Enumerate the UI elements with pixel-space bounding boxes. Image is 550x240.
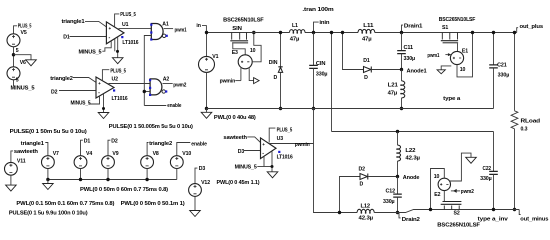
inductor L22 42.3u xyxy=(396,130,399,133)
node Anode1 xyxy=(400,68,403,71)
svg-text:5: 5 xyxy=(16,77,19,83)
svg-text:330µ: 330µ xyxy=(404,56,416,62)
ground at V12 xyxy=(194,196,196,210)
svg-text:42.3µ: 42.3µ xyxy=(405,155,420,161)
E3 output box wire to rail xyxy=(252,33,261,62)
svg-text:RLoad: RLoad xyxy=(521,118,541,124)
source row bus wire xyxy=(48,179,177,181)
U3 Qbar pin marker xyxy=(278,151,280,153)
svg-text:U2: U2 xyxy=(112,77,119,83)
svg-text:C12: C12 xyxy=(386,188,396,194)
voltage source V10 enable xyxy=(177,143,191,156)
voltage source V4 D1 xyxy=(81,140,83,156)
svg-text:V12: V12 xyxy=(201,180,210,186)
svg-text:triangle2: triangle2 xyxy=(50,76,73,82)
wire inin down to D1 branch xyxy=(343,33,364,70)
svg-text:CIN: CIN xyxy=(316,61,326,67)
svg-text:pwmin: pwmin xyxy=(295,142,310,148)
svg-text:5: 5 xyxy=(16,48,19,54)
ground at source bus xyxy=(47,180,49,184)
svg-text:Drain2: Drain2 xyxy=(402,217,420,223)
svg-text:E1: E1 xyxy=(462,48,468,54)
svg-text:PULSE(0 1 5u 9.9u 100n 0 10u): PULSE(0 1 5u 9.9u 100n 0 10u) xyxy=(9,211,88,217)
U2 output wire to A2 xyxy=(109,83,151,85)
svg-text:PWL(0 0 50m 0 60m 0.7 75ms 0.8: PWL(0 0 50m 0 60m 0.7 75ms 0.8) xyxy=(80,187,168,193)
wire SIN gate to E3 xyxy=(233,43,245,54)
svg-text:E2: E2 xyxy=(434,192,440,198)
svg-text:inin: inin xyxy=(319,20,329,26)
svg-text:PWL(0 0.1 50m 0.1 60m 0.7 75ms: PWL(0 0.1 50m 0.1 60m 0.7 75ms 0.8) xyxy=(16,201,114,207)
svg-text:pwm2: pwm2 xyxy=(173,83,186,89)
net label MINUS_5 at U3 xyxy=(257,166,272,168)
voltage source V6 xyxy=(7,67,20,80)
svg-text:Anode1: Anode1 xyxy=(407,68,427,74)
behavioral source E3 gain 10 xyxy=(238,55,252,69)
diode D2 xyxy=(360,174,368,180)
rail wire SIN to L1 xyxy=(248,32,289,34)
svg-text:+: + xyxy=(98,81,101,86)
svg-text:PLUS_5: PLUS_5 xyxy=(18,23,32,29)
wire pwmin to E3 xyxy=(240,68,242,81)
svg-text:PULSE(0 1 50.005m 5u 5u 0 10u): PULSE(0 1 50.005m 5u 5u 0 10u) xyxy=(109,124,193,130)
svg-text:BSC265N10LSF: BSC265N10LSF xyxy=(439,17,476,23)
behavioral source E1 gain 10 xyxy=(450,51,463,64)
U3 output wire pwmin xyxy=(269,143,314,145)
svg-text:type a: type a xyxy=(443,96,460,102)
net label PLUS_5 at U3 xyxy=(269,128,275,142)
U2 ground pin xyxy=(103,94,105,113)
E3 port arrow xyxy=(249,68,253,80)
capacitor C21 330u xyxy=(493,33,495,65)
svg-text:+: + xyxy=(262,142,265,147)
svg-text:out_plus: out_plus xyxy=(520,24,544,30)
net label PLUS_5 at V5 xyxy=(14,26,18,34)
net label MINUS_5 at U2 xyxy=(89,96,100,104)
net label MINUS_5 at V6 xyxy=(13,80,15,86)
inductor L12 42.3u xyxy=(357,209,374,212)
svg-text:pwm1: pwm1 xyxy=(175,27,187,33)
svg-text:V5: V5 xyxy=(21,30,27,36)
capacitor CIN 330u xyxy=(313,33,315,66)
ground at V11 xyxy=(10,175,12,185)
E1 port arrow xyxy=(441,66,451,70)
svg-text:47µ: 47µ xyxy=(388,91,398,97)
svg-text:PWL(0 0 40u 48): PWL(0 0 40u 48) xyxy=(214,115,256,121)
svg-text:10: 10 xyxy=(434,174,440,180)
U1 Qbar pin marker xyxy=(121,36,123,38)
behavioral source E2 gain 10 xyxy=(438,178,450,190)
wire E2 to S2 gate xyxy=(443,191,445,202)
svg-text:MINUS_5: MINUS_5 xyxy=(79,49,102,55)
bottom return rail wire xyxy=(207,108,494,110)
svg-text:10: 10 xyxy=(460,67,466,73)
svg-text:V10: V10 xyxy=(182,151,191,157)
capacitor C22 330u xyxy=(493,132,495,172)
svg-text:type a_inv: type a_inv xyxy=(478,216,508,222)
wire D1 cathode to Anode1 xyxy=(372,69,402,71)
wire D2 cathode to Anode xyxy=(368,176,397,178)
svg-text:330µ: 330µ xyxy=(480,176,492,182)
svg-text:BSC265N10LSF: BSC265N10LSF xyxy=(223,17,263,23)
svg-text:Drain1: Drain1 xyxy=(404,23,423,29)
svg-text:10: 10 xyxy=(250,48,256,54)
svg-text:enable: enable xyxy=(167,103,181,109)
net label pwm2 xyxy=(163,83,173,85)
ground at V1 xyxy=(206,109,208,113)
svg-text:out_minus: out_minus xyxy=(520,216,548,222)
svg-text:MINUS_5: MINUS_5 xyxy=(235,165,257,171)
svg-text:D1: D1 xyxy=(363,58,370,64)
svg-text:S2: S2 xyxy=(454,210,460,216)
svg-text:in: in xyxy=(196,23,200,29)
svg-text:V6: V6 xyxy=(20,60,26,66)
svg-text:C21: C21 xyxy=(497,63,507,69)
svg-text:D: D xyxy=(364,75,368,81)
svg-text:Anode: Anode xyxy=(403,175,420,181)
svg-text:D1: D1 xyxy=(63,34,70,40)
mosfet S2 BSC265N10LSF xyxy=(444,206,459,210)
svg-text:C22: C22 xyxy=(483,166,492,172)
wire pwm1 to E1 xyxy=(445,54,448,56)
svg-text:D1: D1 xyxy=(84,138,91,144)
svg-text:sawteeth: sawteeth xyxy=(223,135,247,141)
comparator U2 LT1016 xyxy=(96,77,114,98)
node V5/V6 junction xyxy=(12,53,15,56)
svg-text:D: D xyxy=(274,75,278,81)
svg-text:sawteeth: sawteeth xyxy=(14,149,38,155)
U1 ground pin xyxy=(114,39,116,51)
svg-text:S1: S1 xyxy=(442,25,448,31)
svg-text:D: D xyxy=(360,182,364,188)
svg-text:LT1016: LT1016 xyxy=(122,40,138,46)
svg-text:L21: L21 xyxy=(388,82,398,88)
diode DIN xyxy=(280,33,282,67)
net label out_minus xyxy=(519,210,520,215)
net label out_plus xyxy=(517,28,518,33)
svg-text:V1: V1 xyxy=(212,54,218,60)
wire S1 gate to E1 xyxy=(457,43,459,51)
svg-text:D2: D2 xyxy=(359,167,366,173)
U2 Qbar pin marker xyxy=(113,89,115,91)
svg-text:pwm2: pwm2 xyxy=(461,189,474,195)
inductor L1 47u xyxy=(290,30,306,33)
net label MINUS_5 at U1 xyxy=(102,41,111,52)
wire inin down to lower cell xyxy=(331,33,333,132)
svg-text:D2: D2 xyxy=(51,90,58,96)
svg-text:PULSE(0 1 50m 5u 5u 0 10u): PULSE(0 1 50m 5u 5u 0 10u) xyxy=(10,129,87,135)
svg-text:D3: D3 xyxy=(238,149,245,155)
net label Drain1 xyxy=(402,25,404,32)
net label PLUS_5 at U1 xyxy=(115,14,120,27)
wire pwm2 to E2 xyxy=(451,190,460,192)
svg-text:330µ: 330µ xyxy=(383,199,395,205)
E2 box wire to rail xyxy=(431,169,445,210)
svg-text:MINUS_5: MINUS_5 xyxy=(11,86,35,92)
voltage source V12 D3 xyxy=(195,168,197,184)
svg-text:pwmin: pwmin xyxy=(220,78,236,84)
svg-text:V11: V11 xyxy=(17,159,26,165)
svg-text:pwm1: pwm1 xyxy=(427,53,439,59)
wire V5 to V6 xyxy=(13,47,15,67)
svg-text:triangle1: triangle1 xyxy=(62,19,85,25)
svg-text:A1: A1 xyxy=(162,21,169,27)
lower rail wire drain2 xyxy=(314,109,358,213)
voltage source V1 xyxy=(206,33,208,57)
svg-text:V7: V7 xyxy=(53,151,59,157)
svg-text:PLUS_5: PLUS_5 xyxy=(110,68,126,74)
svg-text:PWL(0 0 45m 1.1): PWL(0 0 45m 1.1) xyxy=(217,180,260,186)
A2 enable input wire xyxy=(144,91,150,93)
svg-text:triangle1: triangle1 xyxy=(21,141,44,147)
svg-text:enable: enable xyxy=(191,141,207,147)
svg-text:E3: E3 xyxy=(232,50,238,56)
net label PLUS_5 at U2 xyxy=(102,70,109,81)
svg-text:PWL(0 0 50m 0 50.1m 1): PWL(0 0 50m 0 50.1m 1) xyxy=(121,201,185,207)
svg-text:PLUS_5: PLUS_5 xyxy=(277,127,293,133)
svg-text:L1: L1 xyxy=(292,23,298,29)
voltage source V11 sawteeth xyxy=(11,151,13,163)
net label Drain2 xyxy=(399,213,401,218)
svg-text:.tran 100m: .tran 100m xyxy=(302,7,334,13)
voltage source V8 triangle2 xyxy=(147,143,148,156)
inductor L21 47u xyxy=(401,70,403,81)
svg-text:SIN: SIN xyxy=(232,26,242,32)
svg-text:D2: D2 xyxy=(111,138,118,144)
diode D1 xyxy=(364,67,372,73)
svg-text:+: + xyxy=(109,26,112,31)
top input rail wire xyxy=(206,32,289,34)
net label pwm1 xyxy=(164,28,173,30)
svg-text:U1: U1 xyxy=(122,22,129,28)
svg-text:330µ: 330µ xyxy=(498,73,510,79)
AND gate A2 xyxy=(150,79,162,95)
svg-text:A2: A2 xyxy=(163,76,170,82)
svg-text:0.3: 0.3 xyxy=(521,127,528,133)
svg-text:DIN: DIN xyxy=(269,60,278,66)
AND gate A1 xyxy=(151,24,163,40)
svg-text:330µ: 330µ xyxy=(316,72,328,78)
lower rail wire L12 to jog xyxy=(374,210,519,213)
capacitor C11 330u xyxy=(401,33,403,51)
U3 ground pin xyxy=(271,151,273,172)
svg-text:PLUS_5: PLUS_5 xyxy=(120,12,136,18)
svg-text:D3: D3 xyxy=(199,166,206,172)
svg-text:L22: L22 xyxy=(405,148,415,154)
ground at V5/V6 node xyxy=(14,55,32,60)
U1 output wire to A1 xyxy=(119,28,152,30)
svg-text:triangle2: triangle2 xyxy=(149,141,172,147)
wire Drain2 up to D2 xyxy=(340,177,361,213)
svg-text:L11: L11 xyxy=(363,23,373,29)
voltage source V9 D2 xyxy=(108,140,110,156)
E2 ground wire xyxy=(449,153,471,181)
lower cell feed wire y131 xyxy=(332,131,494,133)
svg-text:V4: V4 xyxy=(86,151,92,157)
V1 to ground rail wire xyxy=(206,72,208,108)
svg-text:47µ: 47µ xyxy=(362,37,372,43)
resistor RLoad 0.3 xyxy=(514,33,516,111)
svg-text:V9: V9 xyxy=(112,151,118,157)
net label in xyxy=(202,26,206,33)
A1 enable input wire xyxy=(144,36,151,106)
net label inin xyxy=(314,22,319,32)
svg-text:LT1016: LT1016 xyxy=(112,96,128,102)
svg-text:BSC265N10LSF: BSC265N10LSF xyxy=(437,222,480,228)
svg-text:C11: C11 xyxy=(404,45,414,51)
inductor L11 47u xyxy=(358,29,375,32)
svg-text:MINUS_5: MINUS_5 xyxy=(71,101,91,107)
svg-text:V8: V8 xyxy=(153,151,159,157)
svg-text:U3: U3 xyxy=(277,136,284,142)
svg-text:LT1016: LT1016 xyxy=(277,155,293,161)
net label enable xyxy=(144,105,166,107)
svg-text:L12: L12 xyxy=(361,204,371,210)
capacitor C12 330u xyxy=(397,177,399,195)
comparator U3 LT1016 xyxy=(261,138,277,159)
comparator U1 LT1016 xyxy=(106,22,124,44)
node Anode xyxy=(396,175,399,178)
svg-text:47µ: 47µ xyxy=(290,37,300,43)
voltage source V5 xyxy=(7,34,20,47)
svg-text:42.3µ: 42.3µ xyxy=(359,215,374,221)
E1 box wire to rail xyxy=(457,33,473,77)
